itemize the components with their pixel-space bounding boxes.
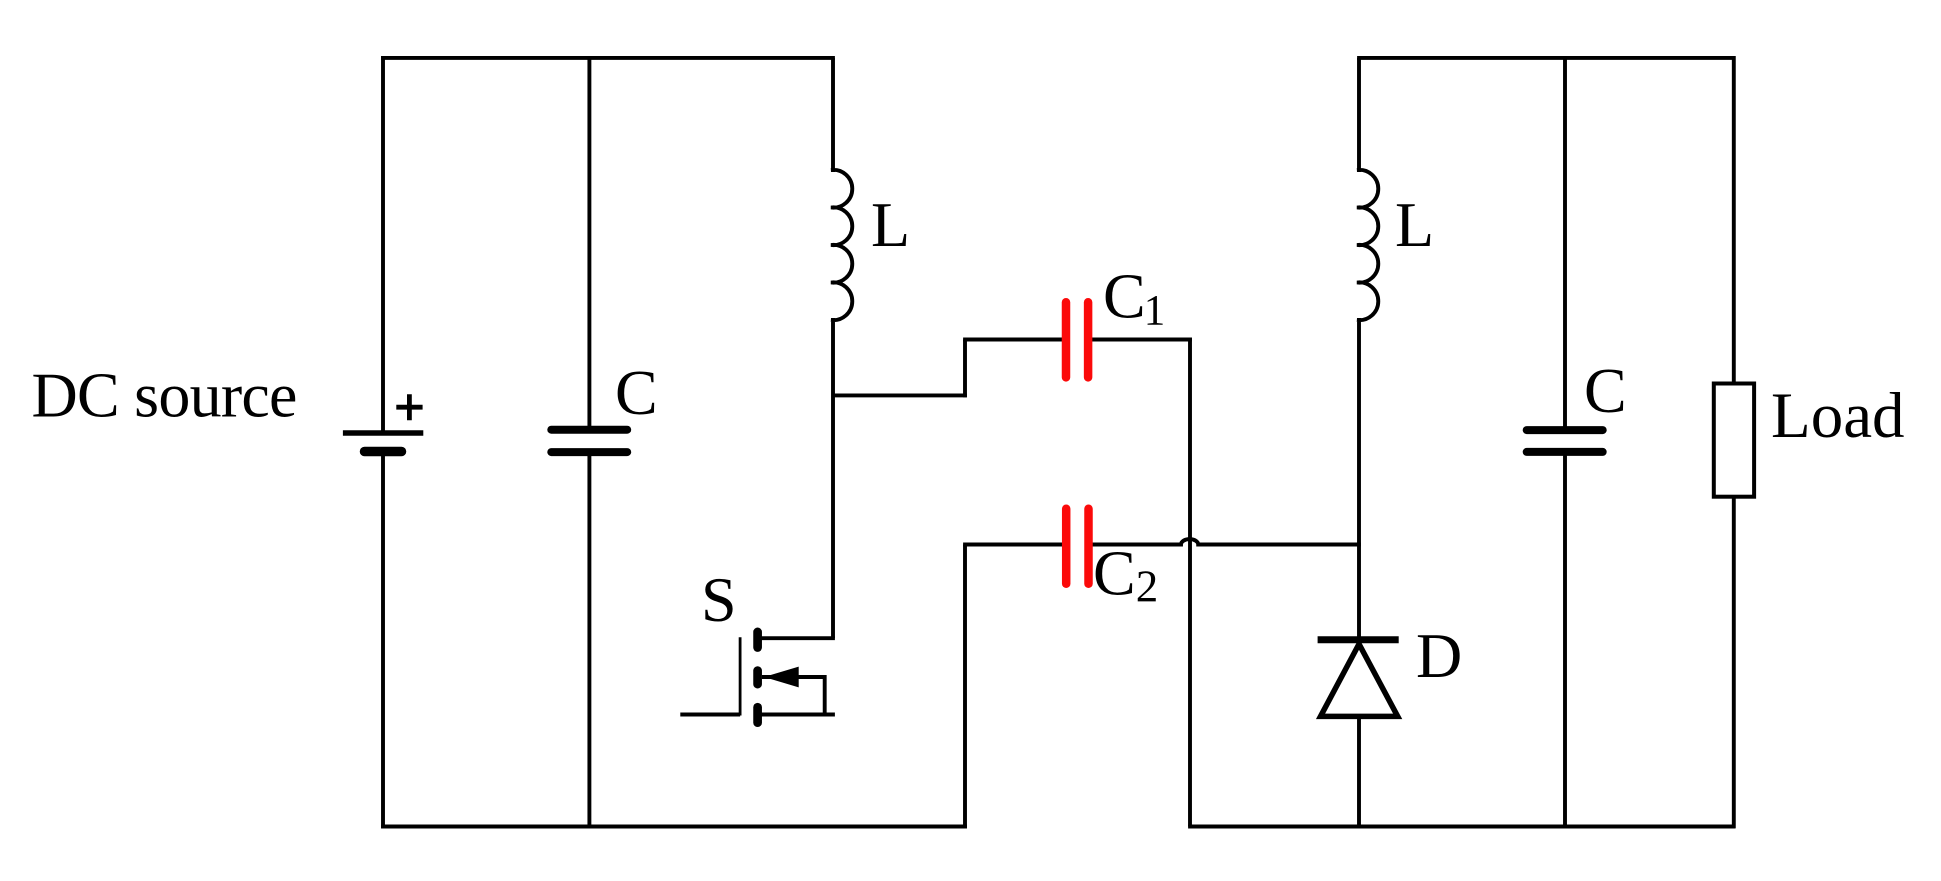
capacitor C2 red plates	[1066, 509, 1088, 584]
wire left vertical top (DC source +)	[381, 56, 385, 433]
svg-text:L: L	[871, 189, 910, 260]
capacitor C right	[1527, 430, 1603, 452]
capacitor C1 red plates	[1066, 302, 1088, 377]
svg-text:D: D	[1416, 620, 1462, 691]
wire left vertical bottom	[381, 452, 385, 828]
wire C2 right lead with hop over vertical	[1092, 539, 1361, 544]
body link wire	[762, 677, 825, 715]
diode triangle	[1321, 644, 1398, 716]
wire load branch bottom	[1732, 497, 1736, 829]
svg-text:C2: C2	[1093, 537, 1158, 611]
wire capacitor C branch bottom	[587, 452, 591, 827]
wire C1 right lead	[1092, 338, 1192, 342]
wire capacitor C branch top	[587, 58, 591, 429]
wire C1 left vertical riser	[963, 340, 967, 398]
wire C2 left vertical down	[963, 545, 967, 829]
channel bar drain	[753, 632, 762, 648]
wire below diode	[1357, 714, 1361, 828]
battery plus sign	[396, 394, 422, 420]
battery top plate	[343, 430, 423, 435]
wire drain node to C1 link	[833, 393, 967, 397]
diode cathode bar	[1318, 636, 1399, 643]
diode D	[1318, 640, 1399, 717]
wire right capacitor C branch bottom	[1563, 452, 1567, 827]
gate lead	[680, 713, 740, 717]
wire right inductor branch with coil	[1357, 58, 1378, 637]
drain lead	[758, 636, 835, 640]
wire inductor L branch with coil	[831, 58, 852, 638]
channel bar source	[753, 707, 762, 723]
capacitor C left	[551, 430, 627, 452]
svg-text:S: S	[701, 564, 737, 635]
wire C2 left lead	[963, 543, 1063, 547]
channel bar body	[753, 671, 762, 685]
wire right capacitor C branch top	[1563, 58, 1567, 429]
wire bottom-right rail	[1188, 825, 1735, 829]
svg-text:C1: C1	[1103, 261, 1165, 335]
battery DC source	[343, 394, 423, 451]
wire load branch top	[1732, 56, 1736, 384]
wire C1 left lead	[963, 338, 1063, 342]
svg-text:L: L	[1395, 189, 1434, 260]
source lead	[758, 713, 835, 717]
svg-text:C: C	[615, 357, 658, 428]
battery bottom plate	[365, 447, 402, 457]
transistor S (MOSFET)	[680, 632, 835, 723]
wire top-left rail	[381, 56, 835, 60]
load resistor box	[1714, 384, 1754, 497]
body arrow	[766, 667, 798, 686]
svg-text:DC source: DC source	[32, 360, 297, 431]
wire C1 right vertical down to output rail	[1188, 338, 1192, 827]
svg-text:C: C	[1584, 355, 1627, 426]
wire top-right rail	[1357, 56, 1735, 60]
svg-text:Load: Load	[1771, 380, 1905, 452]
gate bar	[739, 637, 742, 715]
wire bottom-left rail	[381, 825, 967, 829]
